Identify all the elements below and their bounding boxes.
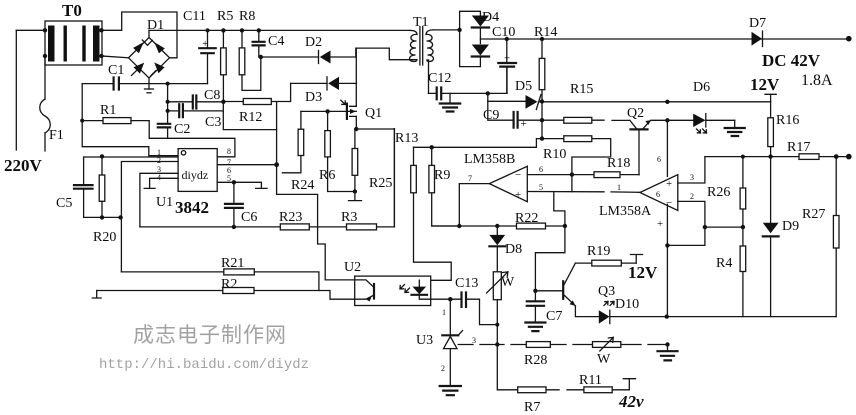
- svg-text:Q3: Q3: [598, 284, 615, 299]
- svg-text:42v: 42v: [618, 392, 644, 411]
- svg-text:R18: R18: [607, 156, 630, 171]
- svg-text:C2: C2: [174, 122, 190, 137]
- svg-text:T0: T0: [62, 1, 82, 20]
- svg-text:R8: R8: [239, 9, 255, 24]
- svg-text:+: +: [202, 38, 208, 50]
- svg-text:D6: D6: [693, 80, 710, 95]
- svg-text:8: 8: [227, 147, 231, 156]
- svg-text:U1: U1: [156, 195, 173, 210]
- svg-text:12V: 12V: [628, 263, 658, 282]
- svg-text:R25: R25: [369, 176, 392, 191]
- svg-text:D8: D8: [505, 242, 522, 257]
- svg-text:C3: C3: [205, 115, 221, 130]
- svg-text:C13: C13: [455, 276, 478, 291]
- svg-text:F1: F1: [49, 128, 64, 143]
- svg-text:R13: R13: [395, 131, 418, 146]
- svg-text:3: 3: [472, 336, 476, 345]
- svg-text:6: 6: [539, 165, 543, 174]
- svg-text:6: 6: [656, 190, 660, 199]
- svg-text:5: 5: [539, 183, 543, 192]
- svg-text:D7: D7: [749, 16, 766, 31]
- svg-text:C1: C1: [108, 63, 124, 78]
- svg-text:R2: R2: [221, 277, 237, 292]
- svg-text:DC 42V: DC 42V: [762, 51, 821, 70]
- svg-text:R17: R17: [787, 140, 810, 155]
- svg-text:1.8A: 1.8A: [801, 72, 833, 89]
- svg-text:Q2: Q2: [627, 106, 644, 121]
- svg-text:+: +: [657, 218, 663, 230]
- svg-text:R3: R3: [341, 210, 357, 225]
- svg-text:R12: R12: [239, 110, 262, 125]
- svg-text:+: +: [515, 189, 521, 201]
- svg-text:4: 4: [157, 173, 161, 182]
- svg-text:R26: R26: [707, 185, 730, 200]
- svg-text:3842: 3842: [175, 198, 209, 217]
- svg-text:Q1: Q1: [365, 106, 382, 121]
- svg-text:R24: R24: [291, 178, 314, 193]
- svg-text:成志电子制作网: 成志电子制作网: [133, 323, 287, 347]
- svg-text:12V: 12V: [750, 75, 780, 94]
- svg-text:R10: R10: [543, 147, 566, 162]
- svg-text:2: 2: [441, 364, 445, 373]
- svg-text:D3: D3: [305, 90, 322, 105]
- svg-text:D10: D10: [615, 297, 639, 312]
- svg-text:C8: C8: [204, 88, 220, 103]
- svg-text:C4: C4: [268, 34, 284, 49]
- svg-text:R11: R11: [579, 373, 602, 388]
- svg-text:C5: C5: [56, 196, 72, 211]
- svg-text:6: 6: [657, 155, 661, 164]
- svg-text:diydz: diydz: [182, 168, 209, 182]
- svg-text:D2: D2: [305, 35, 322, 50]
- svg-text:R7: R7: [524, 400, 540, 415]
- svg-text:W: W: [501, 275, 515, 290]
- svg-text:T1: T1: [413, 15, 429, 30]
- svg-text:R4: R4: [716, 256, 732, 271]
- svg-text:C10: C10: [492, 25, 515, 40]
- svg-text:C7: C7: [546, 309, 562, 324]
- svg-text:C12: C12: [428, 71, 451, 86]
- svg-text:D4: D4: [482, 10, 499, 25]
- svg-text:LM358A: LM358A: [599, 204, 652, 219]
- svg-text:−: −: [515, 169, 521, 181]
- svg-text:U3: U3: [416, 333, 433, 348]
- svg-text:W: W: [597, 352, 611, 367]
- svg-text:220V: 220V: [4, 156, 43, 175]
- svg-text:+: +: [504, 53, 510, 65]
- svg-text:R16: R16: [776, 113, 799, 128]
- svg-text:2: 2: [157, 156, 161, 165]
- svg-text:R6: R6: [319, 168, 335, 183]
- svg-text:R20: R20: [93, 230, 116, 245]
- svg-text:R23: R23: [279, 210, 302, 225]
- svg-text:+: +: [666, 178, 672, 190]
- svg-text:R15: R15: [570, 82, 593, 97]
- svg-text:C9: C9: [483, 108, 499, 123]
- svg-text:D9: D9: [782, 219, 799, 234]
- svg-text:U2: U2: [344, 260, 361, 275]
- svg-text:http://hi.baidu.com/diydz: http://hi.baidu.com/diydz: [99, 357, 309, 373]
- svg-text:R14: R14: [534, 25, 557, 40]
- svg-text:2: 2: [690, 192, 694, 201]
- svg-text:R1: R1: [100, 103, 116, 118]
- svg-text:7: 7: [468, 174, 472, 183]
- svg-text:+: +: [521, 118, 527, 130]
- svg-text:D5: D5: [515, 79, 532, 94]
- svg-text:R21: R21: [221, 256, 244, 271]
- svg-text:C11: C11: [183, 9, 206, 24]
- svg-text:R19: R19: [587, 244, 610, 259]
- svg-text:R5: R5: [217, 9, 233, 24]
- svg-text:R27: R27: [802, 207, 825, 222]
- svg-text:R9: R9: [434, 168, 450, 183]
- svg-text:R22: R22: [515, 211, 538, 226]
- svg-text:1: 1: [617, 183, 621, 192]
- svg-text:D1: D1: [147, 18, 164, 33]
- svg-text:3: 3: [690, 173, 694, 182]
- svg-text:LM358B: LM358B: [464, 152, 515, 167]
- svg-text:R28: R28: [524, 353, 547, 368]
- svg-text:5: 5: [227, 174, 231, 183]
- svg-text:1: 1: [442, 308, 446, 317]
- svg-text:C6: C6: [241, 210, 257, 225]
